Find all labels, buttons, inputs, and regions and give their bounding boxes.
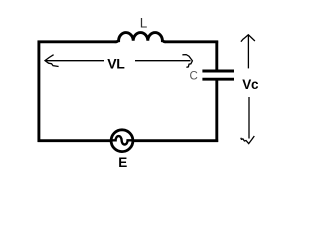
VL arrow left head (45, 55, 59, 67)
svg-text:L: L (140, 16, 148, 31)
svg-text:E: E (118, 155, 127, 170)
wire: top, left of inductor (38, 40, 116, 43)
svg-text:Vc: Vc (242, 77, 259, 92)
Vc arrow upper line (247, 35, 249, 68)
inductor L (115, 33, 166, 42)
wire: bottom, left of source (38, 139, 111, 142)
Vc arrow top head (241, 35, 255, 42)
AC source sine wave (111, 136, 133, 144)
capacitor C top plate (202, 70, 234, 73)
Vc arrow bottom head (241, 136, 255, 144)
AC source E circle (111, 130, 133, 152)
Vc arrow lower line (248, 97, 250, 139)
wire: left wall (37, 41, 40, 143)
svg-text:VL: VL (107, 55, 125, 71)
wire: right wall above capacitor (215, 41, 218, 71)
VL arrow right line (135, 60, 191, 62)
VL arrow right head (182, 55, 192, 68)
wire: top, right of inductor (166, 40, 218, 43)
wire: bottom, right of source (133, 139, 218, 142)
VL arrow left line (45, 60, 104, 62)
svg-text:C: C (190, 70, 198, 82)
capacitor C bottom plate (202, 78, 234, 81)
wire: right wall below capacitor (215, 80, 218, 142)
